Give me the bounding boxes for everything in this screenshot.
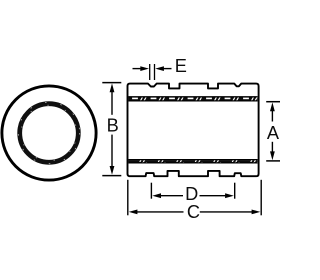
svg-text:B: B bbox=[107, 115, 119, 135]
dimension E right arrow bbox=[161, 68, 172, 70]
dimension C extension lines bbox=[127, 180, 129, 216]
dimension E ticks bbox=[149, 64, 151, 80]
front view outer housing circle bbox=[2, 86, 96, 180]
svg-text:C: C bbox=[187, 202, 200, 222]
svg-text:E: E bbox=[175, 56, 187, 76]
bottom sleeve hatched band bbox=[129, 160, 258, 164]
dimension A line with arrows bbox=[271, 110, 273, 122]
top sleeve hatched band bbox=[129, 97, 258, 101]
dimension D line with arrows bbox=[160, 195, 183, 197]
side view body outline with retaining-ring grooves bbox=[128, 84, 259, 177]
dimension E left arrow bbox=[133, 68, 144, 70]
dimension D extension lines bbox=[150, 183, 152, 199]
svg-text:D: D bbox=[185, 184, 198, 204]
front view bearing ball-track ring bbox=[20, 104, 79, 163]
dimension B line with arrows bbox=[111, 91, 113, 115]
dimension A extension ticks bbox=[266, 101, 280, 103]
ring speckle texture bbox=[18, 102, 79, 163]
svg-text:A: A bbox=[267, 123, 280, 143]
dimension C line with arrows bbox=[136, 211, 184, 213]
dimension B extension lines bbox=[102, 82, 121, 84]
